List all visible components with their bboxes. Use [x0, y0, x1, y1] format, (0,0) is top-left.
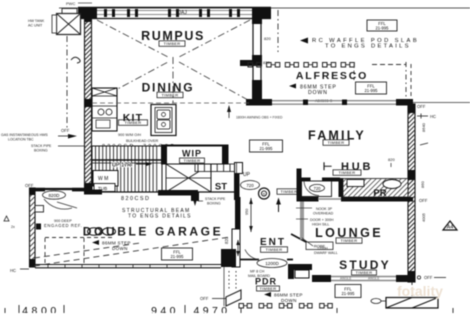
stair treads lower flight — [92, 146, 162, 192]
svg-text:WIP: WIP — [182, 149, 202, 159]
wall study south window — [312, 275, 413, 282]
slab level box family — [250, 140, 283, 152]
svg-text:DWARF WALL: DWARF WALL — [314, 251, 338, 255]
laundry tub — [94, 184, 115, 192]
washing machine — [93, 171, 118, 187]
label HC right — [417, 114, 436, 120]
svg-text:DOOR + 300H: DOOR + 300H — [310, 218, 334, 222]
boundary line top — [59, 7, 470, 9]
note meter board — [248, 270, 270, 279]
svg-text:UP: UP — [243, 172, 251, 178]
kitchen island — [151, 105, 176, 136]
wall garage east — [221, 163, 241, 267]
lounge floor label TIMBER — [336, 238, 362, 244]
driveway dashed diagonals — [34, 237, 230, 266]
door label 1200D — [257, 259, 287, 268]
svg-text:21-995: 21-995 — [364, 88, 378, 93]
squiggle arrow — [71, 57, 80, 63]
note 86mm step down alfresco — [289, 84, 337, 97]
svg-text:BOXING: BOXING — [34, 149, 48, 153]
door label 720 oval left — [241, 181, 260, 190]
svg-text:A4: A4 — [447, 225, 454, 231]
ent floor label TIMBER — [261, 247, 288, 253]
slab level box garage — [162, 248, 193, 260]
up arrow at lounge wall — [276, 198, 281, 213]
svg-text:ST: ST — [215, 182, 227, 193]
svg-text:STACK PIPE: STACK PIPE — [205, 197, 226, 201]
svg-text:OVERHEAD: OVERHEAD — [313, 212, 334, 216]
wall west hatched — [0, 13, 448, 192]
svg-text:TIMBER: TIMBER — [162, 93, 179, 98]
stair direction label — [112, 162, 152, 169]
dimension 4970 — [151, 305, 230, 317]
svg-text:21-995: 21-995 — [375, 26, 389, 31]
svg-text:MF 8 CH: MF 8 CH — [250, 270, 265, 274]
dimension 4800 — [19, 305, 64, 317]
downpipe box top-left — [62, 9, 77, 18]
kitchen bench west — [92, 88, 117, 131]
note structural beam — [122, 200, 197, 220]
svg-text:OFF: OFF — [61, 128, 70, 133]
family floor label TIMBER — [323, 140, 349, 146]
note 86mm step porch — [264, 292, 303, 303]
label OFF right bottom — [417, 275, 446, 280]
svg-text:DOWN: DOWN — [281, 298, 297, 303]
wc room — [302, 181, 332, 197]
svg-text:TIMBER: TIMBER — [164, 41, 181, 46]
svg-text:HC: HC — [10, 268, 16, 273]
svg-text:OFF: OFF — [424, 275, 433, 280]
meter box with X — [52, 14, 81, 35]
svg-text:TO ENGS DETAILS: TO ENGS DETAILS — [128, 214, 192, 220]
svg-text:820: 820 — [388, 157, 395, 162]
svg-text:21-995: 21-995 — [259, 146, 273, 151]
kit floor label TIMBER — [119, 120, 148, 126]
wall rumpus north with window band — [78, 8, 271, 19]
svg-text:ENGAGED REF.: ENGAGED REF. — [44, 223, 82, 228]
svg-text:DOWN: DOWN — [308, 90, 328, 96]
svg-text:TIMBER: TIMBER — [125, 120, 142, 125]
svg-text:TIMBER: TIMBER — [328, 140, 345, 145]
svg-text:PWC: PWC — [66, 1, 75, 6]
svg-text:OFF: OFF — [200, 296, 209, 301]
note nook overhead — [296, 207, 334, 227]
porch slab hatched — [371, 298, 438, 309]
svg-text:1200D: 1200D — [265, 261, 279, 266]
garage pier dashed lines — [45, 237, 112, 239]
roof dashed vertical right — [405, 62, 407, 99]
note stack pipe — [31, 144, 84, 153]
svg-text:TIMBER: TIMBER — [184, 158, 201, 163]
wall garage north — [84, 190, 235, 202]
svg-text:900 W/M O/H: 900 W/M O/H — [118, 133, 141, 137]
left margin marks — [4, 216, 15, 229]
setback dash-dot line — [66, 36, 68, 130]
wall hub south — [297, 197, 414, 202]
svg-text:BULKHEAD OVER: BULKHEAD OVER — [126, 139, 159, 143]
svg-text:fotality: fotality — [397, 283, 443, 299]
roof dash-dot line — [277, 10, 279, 52]
svg-text:86MM STEP: 86MM STEP — [274, 293, 303, 298]
hws units ovals — [88, 228, 116, 236]
stair void X — [166, 164, 211, 192]
wall wc east — [339, 178, 344, 197]
svg-text:1200H: 1200H — [317, 247, 328, 251]
corridor floor label TIMBER — [277, 189, 301, 195]
door 820D with swing — [43, 191, 78, 209]
pdr floor label TIMBER — [257, 286, 280, 291]
svg-text:950: 950 — [245, 209, 249, 215]
section marker A4 — [443, 221, 457, 231]
svg-text:PDR: PDR — [255, 277, 277, 287]
entry nib wall — [288, 264, 312, 279]
porch screen bracket row — [239, 304, 332, 309]
svg-text:21-995: 21-995 — [170, 254, 184, 259]
svg-text:TO ENGS DETAILS: TO ENGS DETAILS — [325, 44, 411, 50]
svg-text:ANGLE: ANGLE — [368, 277, 380, 281]
svg-text:BOXING: BOXING — [207, 202, 221, 206]
powder room tiled — [323, 179, 442, 200]
svg-text:S: S — [262, 192, 265, 197]
svg-text:W M: W M — [98, 176, 108, 182]
note waffle pod slab — [300, 38, 419, 50]
svg-text:GAS INSTANTANEOUS HWS: GAS INSTANTANEOUS HWS — [1, 133, 48, 137]
svg-text:1800H AWNING OBS + FIXED: 1800H AWNING OBS + FIXED — [236, 116, 283, 120]
box on corridor wall — [235, 163, 243, 174]
ent south wall with door — [240, 250, 293, 260]
dim ticks right — [420, 143, 428, 145]
porch dashed line — [411, 282, 413, 297]
svg-text:2x: 2x — [11, 225, 15, 229]
porch ramp parallelogram — [200, 267, 241, 306]
svg-text:HW TANK: HW TANK — [28, 19, 45, 23]
svg-text:LOCATION TBC: LOCATION TBC — [8, 138, 34, 142]
svg-text:860: 860 — [420, 181, 425, 188]
svg-text:4800: 4800 — [22, 305, 60, 313]
dining floor label TIMBER — [157, 92, 183, 98]
svg-text:OFF: OFF — [25, 183, 34, 188]
svg-text:820CSD: 820CSD — [121, 196, 150, 202]
svg-text:TIMBER: TIMBER — [356, 270, 373, 275]
svg-text:OFF: OFF — [417, 104, 426, 109]
svg-text:4005: 4005 — [421, 212, 426, 222]
ceiling dash-dot lines rumpus — [97, 20, 250, 103]
svg-text:4970: 4970 — [194, 305, 231, 313]
post on garage wall — [36, 224, 41, 230]
svg-text:TIMBER: TIMBER — [260, 286, 277, 291]
svg-text:TIMBER: TIMBER — [339, 170, 356, 175]
svg-text:820D: 820D — [49, 193, 61, 198]
slab level box porch — [335, 285, 361, 298]
svg-text:720: 720 — [314, 186, 322, 191]
bottom ticks — [5, 308, 453, 313]
wall garage north-west return — [35, 188, 84, 192]
svg-text:21-995: 21-995 — [341, 291, 355, 296]
note dwarf wall — [314, 247, 338, 256]
svg-text:820: 820 — [224, 236, 229, 244]
svg-text:OAJ: OAJ — [177, 10, 187, 16]
svg-text:ALFRESCO: ALFRESCO — [296, 70, 368, 82]
dwarf wall — [300, 202, 304, 240]
window mullions top wall — [104, 9, 240, 17]
svg-text:UP 17R: UP 17R — [112, 163, 131, 169]
room WIP — [161, 145, 228, 165]
slab level box alfresco — [356, 82, 387, 94]
wall stub west at dining — [240, 60, 252, 66]
note engaged ref — [44, 219, 82, 228]
dim arrows garage wall — [245, 198, 253, 232]
svg-text:DOUBLE GARAGE: DOUBLE GARAGE — [83, 225, 223, 239]
wall east of dining — [252, 18, 262, 104]
wall family east — [297, 169, 302, 198]
boundary line right of family — [413, 102, 470, 104]
smoke alarm — [259, 188, 270, 199]
svg-text:HC: HC — [430, 114, 436, 119]
door label 720 oval right — [308, 183, 327, 192]
note stack pipe boxing 2 — [198, 197, 226, 206]
svg-text:820: 820 — [264, 36, 271, 41]
note gas HWS — [1, 133, 77, 142]
note 86mm step garage — [92, 240, 131, 251]
svg-text:8640: 8640 — [421, 122, 426, 132]
wall garage west hatched — [0, 188, 189, 267]
garage door panel — [35, 265, 221, 268]
svg-text:AC UNIT: AC UNIT — [28, 24, 43, 28]
angled robe wall — [291, 234, 333, 250]
svg-text:NOOK 3P: NOOK 3P — [316, 207, 333, 211]
shelf box on garage wall — [35, 206, 44, 213]
screen bracket row alfresco — [248, 63, 354, 68]
study floor label TIMBER — [352, 270, 377, 275]
svg-text:TIMBER: TIMBER — [266, 247, 283, 252]
closet ST — [211, 164, 227, 193]
dim arrow small — [227, 105, 231, 112]
wall wc north — [302, 178, 341, 182]
svg-text:TIMBER: TIMBER — [341, 238, 358, 243]
wall family north window band — [246, 99, 413, 106]
svg-text:STACK PIPE: STACK PIPE — [31, 144, 52, 148]
slab level box top right — [367, 20, 397, 31]
wall east hatched — [228, 104, 470, 282]
hub floor label TIMBER — [333, 170, 361, 176]
svg-text:ANGLE: ANGLE — [340, 277, 352, 281]
rumpus floor label TIMBER — [159, 41, 185, 47]
svg-text:940: 940 — [151, 305, 179, 313]
bulkhead dashed line — [92, 102, 252, 104]
svg-text:OFF: OFF — [419, 198, 428, 203]
svg-text:TIMBER: TIMBER — [281, 189, 298, 194]
svg-text:720: 720 — [246, 183, 254, 188]
stair treads upper flight — [195, 164, 240, 172]
